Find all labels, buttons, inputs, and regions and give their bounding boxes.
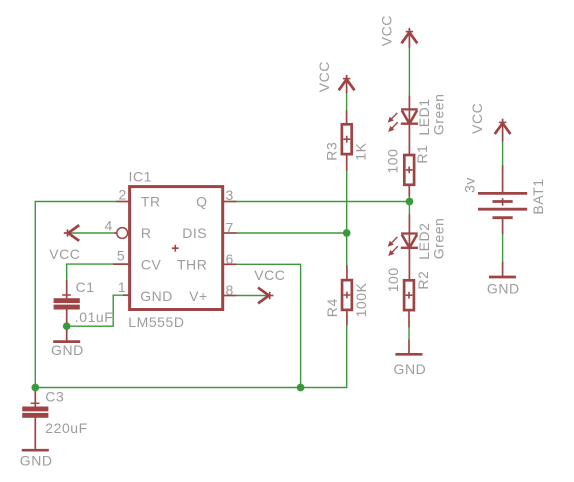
pin number 3: [226, 187, 234, 203]
wire pin4 R to VCC arrow: [69, 232, 114, 234]
label .01uF: [75, 309, 114, 325]
svg-text:GND: GND: [394, 361, 427, 377]
ground below BAT1: [489, 276, 516, 278]
pin name GND: [140, 288, 173, 304]
pin name DIS: [182, 225, 207, 241]
label R4: [324, 298, 340, 317]
svg-text:VCC: VCC: [316, 61, 332, 92]
pin name THR: [177, 257, 207, 273]
wire R2 to GND: [408, 327, 410, 340]
junction node C1/pin1: [63, 322, 71, 330]
label VCC at pin4: [49, 246, 80, 262]
pin name V+: [189, 288, 208, 304]
svg-text:1K: 1K: [352, 142, 368, 160]
label IC1: [129, 168, 152, 184]
lead BAT1 bottom: [502, 219, 504, 234]
pin stub 8: [223, 295, 236, 297]
svg-text:.01uF: .01uF: [75, 309, 114, 325]
pin name TR: [141, 194, 161, 210]
label 100 of R1: [384, 149, 400, 174]
wire pin3 Q to LED2 node: [236, 201, 410, 203]
lead BAT1 top: [502, 165, 504, 192]
svg-text:8: 8: [226, 282, 234, 298]
wire R3 to R4 through DIS node: [346, 171, 348, 266]
battery BAT1: [478, 193, 527, 217]
wire pin1 GND to C1 bottom node: [67, 295, 124, 326]
lead LED1 anode/cathode through R1: [408, 96, 410, 155]
svg-text:3v: 3v: [462, 177, 478, 193]
lead C3 bottom: [34, 417, 36, 450]
label LED2: [416, 222, 432, 259]
resistor R4: [342, 280, 352, 310]
lead C1 bottom: [66, 310, 68, 342]
svg-text:R1: R1: [414, 145, 430, 164]
svg-text:Green: Green: [431, 218, 447, 260]
svg-text:GND: GND: [140, 288, 173, 304]
supply VCC arrow above LED1: [402, 28, 418, 43]
svg-text:Q: Q: [196, 194, 207, 210]
label GND under BAT1: [487, 281, 520, 297]
svg-text:2: 2: [118, 187, 126, 203]
pin number 7: [226, 220, 234, 236]
pin number 8: [226, 282, 234, 298]
pin name CV: [141, 257, 162, 273]
label GND under C1: [51, 342, 84, 358]
pin name Q: [196, 194, 207, 210]
svg-text:BAT1: BAT1: [530, 178, 546, 214]
svg-text:GND: GND: [20, 452, 53, 468]
wire pin7 DIS to R3/R4 node: [236, 232, 347, 234]
lead R3 bottom: [346, 155, 348, 172]
label Green of LED1: [431, 94, 447, 136]
lead R2 gnd: [408, 340, 410, 355]
label LM555D: [128, 314, 184, 330]
svg-text:GND: GND: [51, 342, 84, 358]
junction node at left rail: [31, 384, 39, 392]
svg-text:VCC: VCC: [379, 15, 395, 46]
label VCC at pin8: [254, 267, 285, 283]
pin stub 4: [114, 232, 117, 234]
label Green of LED2: [431, 218, 447, 260]
svg-text:GND: GND: [487, 281, 520, 297]
pin stub 7: [223, 232, 236, 234]
svg-text:6: 6: [226, 251, 234, 267]
pin number 2: [118, 187, 126, 203]
label VCC above R3: [316, 61, 332, 92]
pin stub 6: [223, 263, 236, 265]
lead R3 top: [346, 111, 348, 125]
wire pin2 TR to left rail and bottom rail to R4: [35, 202, 346, 388]
lead R1 bottom: [408, 185, 410, 197]
junction node Q/LED2: [406, 198, 414, 206]
svg-text:4: 4: [104, 217, 112, 233]
lead R2 bottom: [408, 310, 410, 327]
svg-text:CV: CV: [141, 257, 162, 273]
wire pin8 V+ to VCC arrow: [236, 295, 267, 297]
wire VCC to LED1: [408, 47, 410, 96]
svg-text:C1: C1: [76, 279, 95, 295]
supply VCC arrow at pin 8: [258, 288, 273, 304]
pin number 1: [118, 279, 126, 295]
svg-text:100: 100: [385, 267, 401, 292]
svg-text:THR: THR: [177, 257, 207, 273]
label R1: [414, 145, 430, 164]
svg-text:R: R: [141, 225, 152, 241]
svg-text:R3: R3: [323, 142, 339, 161]
svg-text:5: 5: [117, 248, 125, 264]
svg-text:TR: TR: [141, 194, 161, 210]
resistor R1: [404, 155, 414, 185]
lead BAT1 gnd: [502, 262, 504, 277]
lead VCC arrow D tail: [267, 295, 269, 297]
label GND under C3: [20, 452, 53, 468]
svg-text:7: 7: [226, 220, 234, 236]
lead LED2 anode/cathode to R2: [408, 214, 410, 280]
svg-text:C3: C3: [45, 389, 64, 405]
label LED1: [416, 98, 432, 135]
svg-text:V+: V+: [189, 288, 208, 304]
pin number 6: [226, 251, 234, 267]
wire BAT1 to GND: [502, 234, 504, 262]
svg-text:LM555D: LM555D: [128, 314, 184, 330]
lead VCC arrow C tail: [502, 124, 504, 142]
label 220uF: [45, 420, 87, 436]
svg-text:220uF: 220uF: [45, 420, 87, 436]
junction node THR/bottom rail: [297, 384, 305, 392]
svg-text:IC1: IC1: [129, 168, 152, 184]
label 100K: [353, 282, 369, 317]
svg-text:100: 100: [384, 149, 400, 174]
LED2: [389, 234, 419, 256]
resistor R3: [342, 124, 352, 154]
LED1: [389, 109, 419, 131]
pin number 4: [104, 217, 112, 233]
svg-text:R2: R2: [415, 271, 431, 290]
pin name R: [141, 225, 152, 241]
label C3: [45, 389, 64, 405]
ground below R2: [395, 353, 422, 355]
svg-text:R4: R4: [324, 298, 340, 317]
svg-text:100K: 100K: [353, 282, 369, 317]
lead VCC arrow A tail: [408, 33, 410, 48]
svg-text:VCC: VCC: [49, 246, 80, 262]
lead C3 top: [34, 391, 36, 407]
junction node DIS/R3R4: [343, 229, 351, 237]
capacitor C1: [54, 295, 80, 310]
wire VCC to BAT1: [502, 141, 504, 166]
svg-text:1: 1: [118, 279, 126, 295]
svg-text:DIS: DIS: [182, 225, 207, 241]
lead R4 top: [346, 265, 348, 280]
lead C1 top: [66, 280, 68, 299]
pin stub 5: [113, 263, 129, 265]
label BAT1: [530, 178, 546, 214]
supply VCC arrow at pin 4: [64, 225, 79, 241]
svg-text:3: 3: [226, 187, 234, 203]
svg-text:VCC: VCC: [469, 103, 485, 134]
label GND under R2: [394, 361, 427, 377]
wire R1 to LED2 through Q node: [408, 196, 410, 214]
pin stub 3: [223, 201, 236, 203]
label 1K: [352, 142, 368, 160]
label R3: [323, 142, 339, 161]
IC IC1 LM555D body: [130, 187, 223, 310]
label VCC above BAT1: [469, 103, 485, 134]
label C1: [76, 279, 95, 295]
label 100 of R2: [385, 267, 401, 292]
lead R4 bottom: [346, 310, 348, 325]
wire VCC to R3: [346, 93, 348, 111]
supply VCC arrow above R3: [339, 75, 355, 90]
label VCC above LED1: [379, 15, 395, 46]
wire pin5 CV to C1: [67, 264, 114, 280]
lead VCC arrow B tail: [346, 80, 348, 93]
svg-text:Green: Green: [431, 94, 447, 136]
wire pin6 THR down to bottom rail: [236, 264, 301, 387]
label 3v: [462, 177, 478, 193]
capacitor C3: [22, 403, 48, 418]
ground below C3: [22, 449, 49, 451]
resistor R2: [404, 280, 414, 310]
pin 4 inversion circle: [117, 228, 128, 239]
svg-text:VCC: VCC: [254, 267, 285, 283]
pin stub 2: [116, 201, 130, 203]
label R2: [415, 271, 431, 290]
ground below C1: [53, 341, 80, 343]
supply VCC arrow above BAT1: [495, 119, 511, 134]
pin number 5: [117, 248, 125, 264]
pin stub 1: [123, 294, 130, 296]
